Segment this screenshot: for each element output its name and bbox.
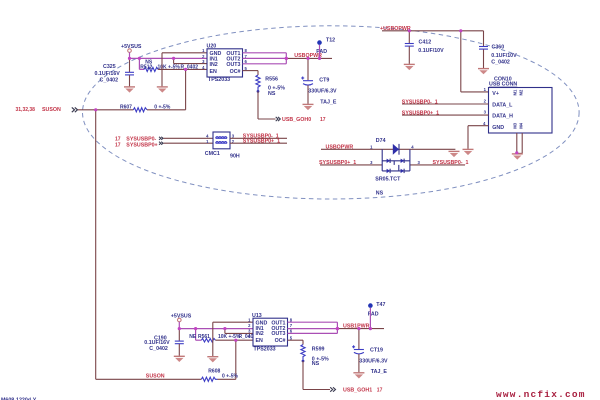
wire D74 pin2 right <box>410 164 465 166</box>
svg-text:U13: U13 <box>252 313 262 319</box>
svg-text:C325: C325 <box>103 64 116 70</box>
CON10 pin numbers <box>483 87 487 126</box>
wire CON10 mounting stubs <box>517 133 522 153</box>
net input SUSON (left) <box>16 107 62 113</box>
ground (C360) <box>478 69 489 75</box>
offpage arrows CMC1 inputs <box>159 137 163 145</box>
svg-text:17: 17 <box>320 117 326 123</box>
svg-text:M4: M4 <box>519 122 524 128</box>
capacitor C360 <box>479 31 517 68</box>
ground (C325) <box>124 87 135 93</box>
connector CON10 USB CONN <box>489 77 553 134</box>
svg-text:NS: NS <box>312 361 320 367</box>
svg-text:USB CONN: USB CONN <box>489 82 517 88</box>
U13 pin numbers <box>248 318 293 341</box>
svg-text:OUT3: OUT3 <box>271 331 285 337</box>
svg-text:SYSUSBP0+_1: SYSUSBP0+_1 <box>402 110 439 116</box>
wire USB1PWR run <box>337 328 384 330</box>
IC U20 TPS2033 <box>207 44 243 84</box>
svg-text:OUT3: OUT3 <box>226 62 240 68</box>
net label SYSUSBP0-_1 (D74 right) <box>433 160 469 166</box>
resistor R561 <box>189 334 256 342</box>
ground (U20 GND) <box>157 87 168 93</box>
svg-text:CMC1: CMC1 <box>205 151 220 157</box>
net label SYSUSBP0+_1 (D74 left) <box>319 160 356 166</box>
ground (U13 GND) <box>207 357 218 363</box>
svg-text:SUSON: SUSON <box>146 373 165 379</box>
svg-text:PAD: PAD <box>368 311 379 317</box>
pad T47 <box>368 302 386 329</box>
ground (mounting) <box>512 154 523 160</box>
ground (D74 pin4) <box>449 151 460 157</box>
net label USB1PWR <box>343 324 370 330</box>
svg-text:SR05.TCT: SR05.TCT <box>375 177 401 183</box>
svg-text:17: 17 <box>115 142 121 148</box>
diode array D74 SR05.TCT <box>375 138 410 197</box>
dashed highlight ellipse <box>82 26 579 199</box>
svg-text:USB_GOH1: USB_GOH1 <box>343 388 372 394</box>
svg-text:NE: NE <box>189 334 197 340</box>
junction dot (below R556) <box>257 90 260 93</box>
wire SUSON net <box>78 110 236 380</box>
watermark www.ncfix.com <box>496 389 586 400</box>
wire D74 pin3 left <box>320 164 382 166</box>
D74 pin numbers <box>370 144 420 165</box>
svg-text:V+: V+ <box>492 91 499 97</box>
clipped footer text <box>1 398 37 400</box>
resistor R512 <box>140 59 198 71</box>
wire U13 outputs merge (magenta) <box>288 322 338 333</box>
net label USBOPWR <box>294 53 322 59</box>
svg-text:C412: C412 <box>419 40 432 46</box>
svg-text:TPS2033: TPS2033 <box>254 347 276 353</box>
svg-text:USB1PWR: USB1PWR <box>343 324 370 330</box>
svg-text:0.1UF/16V: 0.1UF/16V <box>95 71 121 77</box>
svg-text:+5VSUS: +5VSUS <box>171 313 192 319</box>
wire U20 outputs merge (magenta) <box>243 53 287 64</box>
power rail +USBOPWR (top right) <box>380 26 484 32</box>
capacitor C325 <box>95 58 135 86</box>
net label SUSON (bottom) <box>146 373 165 379</box>
power symbol +5VSUS (top) <box>121 44 142 52</box>
svg-text:OC#: OC# <box>275 338 286 344</box>
svg-text:90H: 90H <box>230 154 240 160</box>
resistor R556 on OC# <box>243 71 286 97</box>
svg-text:PAD: PAD <box>316 49 327 55</box>
capacitor C412 <box>405 31 444 64</box>
net label SYSUSBP0+_1 (DATA_H) <box>402 110 439 116</box>
wire USB_GOH0 net <box>258 91 276 119</box>
svg-text:0.1UF/16V: 0.1UF/16V <box>144 340 170 346</box>
CMC1 pin numbers <box>206 134 235 144</box>
offpage arrow USB_GOH0 <box>276 117 281 121</box>
resistor R608 <box>201 368 238 381</box>
ground (CT19) <box>353 373 364 379</box>
offpage arrow SUSON <box>72 107 78 112</box>
svg-text:DATA_L: DATA_L <box>492 102 513 108</box>
svg-text:T47: T47 <box>376 302 385 308</box>
wire V+ feed <box>461 31 489 92</box>
capacitor CT9 <box>301 58 337 105</box>
svg-text:SYSUSBP0+: SYSUSBP0+ <box>126 142 157 148</box>
wire U20 GND to ground <box>162 53 207 87</box>
wire CMC1 output wires <box>230 138 287 143</box>
wire USB_GOH1 net <box>303 361 330 390</box>
svg-text:USB_GOH0: USB_GOH0 <box>282 117 311 123</box>
svg-text:NS: NS <box>376 191 384 197</box>
wire D74 anode row <box>321 148 455 150</box>
ground (C190) <box>174 356 185 362</box>
svg-text:NS: NS <box>268 91 276 97</box>
svg-text:CT9: CT9 <box>319 77 329 83</box>
svg-text:EN: EN <box>256 338 264 344</box>
svg-text:R512: R512 <box>140 64 152 70</box>
svg-text:C_0402: C_0402 <box>149 346 168 352</box>
wire DATA_L <box>402 103 489 105</box>
power symbol +5VSUS (bottom) <box>171 313 192 322</box>
svg-text:R556: R556 <box>265 76 278 82</box>
wire +5VSUS net top (magenta) <box>130 52 208 69</box>
net labels CMC1 outputs <box>243 133 280 144</box>
net label USBOPWR (D74) <box>326 144 354 150</box>
svg-text:TPS2033: TPS2033 <box>208 77 230 83</box>
junction dot (below R599) <box>302 360 305 363</box>
ground (C412) <box>404 64 415 70</box>
svg-text:OC#: OC# <box>230 69 241 75</box>
svg-text:M2: M2 <box>519 89 524 95</box>
CMC1 body <box>205 132 240 160</box>
wire CON10 GND <box>468 126 489 149</box>
net label USB_GOH1 <box>343 387 383 393</box>
svg-text:+5VSUS: +5VSUS <box>121 44 142 50</box>
capacitor C190 <box>144 329 184 356</box>
wire EN net bottom <box>215 339 253 341</box>
ground (CT9) <box>303 104 314 110</box>
pad T12 <box>316 37 335 58</box>
svg-text:TAJ_E: TAJ_E <box>371 369 388 375</box>
svg-text:SUSON: SUSON <box>42 107 61 113</box>
svg-text:C360: C360 <box>492 45 505 51</box>
wire DATA_H <box>402 114 489 116</box>
svg-text:0.1UF/10V: 0.1UF/10V <box>491 53 517 59</box>
svg-text:0 +-5%: 0 +-5% <box>154 105 171 111</box>
svg-text:330UF/6.3V: 330UF/6.3V <box>359 359 388 365</box>
resistor R599 on OC# <box>288 340 330 367</box>
svg-text:M1: M1 <box>513 89 518 95</box>
svg-text:C_0402: C_0402 <box>491 60 510 66</box>
wire USBOPWR run top <box>286 57 332 59</box>
wire +5VSUS net bottom (magenta) <box>179 322 253 340</box>
svg-text:SYSUSBP0+_1: SYSUSBP0+_1 <box>243 139 280 145</box>
svg-text:TAJ_E: TAJ_E <box>320 100 337 106</box>
svg-text:10K +-5%: 10K +-5% <box>218 334 241 340</box>
U20 pin numbers <box>202 48 247 71</box>
svg-text:31,32,38: 31,32,38 <box>16 107 36 113</box>
svg-text:DATA_H: DATA_H <box>492 114 513 120</box>
net label USB_GOH0 <box>282 117 326 123</box>
svg-text:C_0402: C_0402 <box>100 78 119 84</box>
IC U13 TPS2033 <box>252 313 288 353</box>
svg-text:GND: GND <box>492 125 504 131</box>
resistor R607 <box>120 104 171 112</box>
svg-text:www.ncfix.com: www.ncfix.com <box>496 389 586 400</box>
svg-text:0.1UF/10V: 0.1UF/10V <box>418 48 444 54</box>
wire EN net top <box>158 69 207 109</box>
net label SYSUSBP0-_1 (DATA_L) <box>402 99 438 105</box>
svg-text:M3: M3 <box>513 122 518 128</box>
svg-text:SYSUSBP0-_1: SYSUSBP0-_1 <box>402 99 438 105</box>
svg-text:IN2: IN2 <box>256 331 264 337</box>
common mode choke CMC1 <box>115 137 158 149</box>
svg-text:D74: D74 <box>376 138 386 144</box>
svg-text:IN2: IN2 <box>210 62 218 68</box>
junction dots (magenta) <box>94 29 518 342</box>
svg-text:R607: R607 <box>120 104 132 110</box>
svg-text:CT19: CT19 <box>370 348 383 354</box>
svg-text:SYSUSBP0-_1: SYSUSBP0-_1 <box>433 160 469 166</box>
wire CMC1 input wires <box>164 138 214 143</box>
svg-text:R599: R599 <box>312 346 325 352</box>
svg-text:0 +-5%: 0 +-5% <box>222 374 239 380</box>
offpage arrow USB_GOH1 <box>330 387 335 391</box>
wire U13 GND to ground <box>213 322 253 356</box>
svg-text:EN: EN <box>210 69 218 75</box>
wire IN2 jog bottom <box>225 329 253 334</box>
svg-text:T12: T12 <box>326 37 335 43</box>
svg-text:R608: R608 <box>208 368 220 374</box>
capacitor CT19 <box>352 329 388 375</box>
svg-text:R561: R561 <box>198 334 210 340</box>
wire IN2 jog top <box>174 58 207 63</box>
ground (CON10 GND) <box>463 149 474 155</box>
svg-text:U20: U20 <box>207 44 217 50</box>
svg-text:330UF/6.3V: 330UF/6.3V <box>308 89 337 95</box>
svg-text:17: 17 <box>377 387 383 393</box>
